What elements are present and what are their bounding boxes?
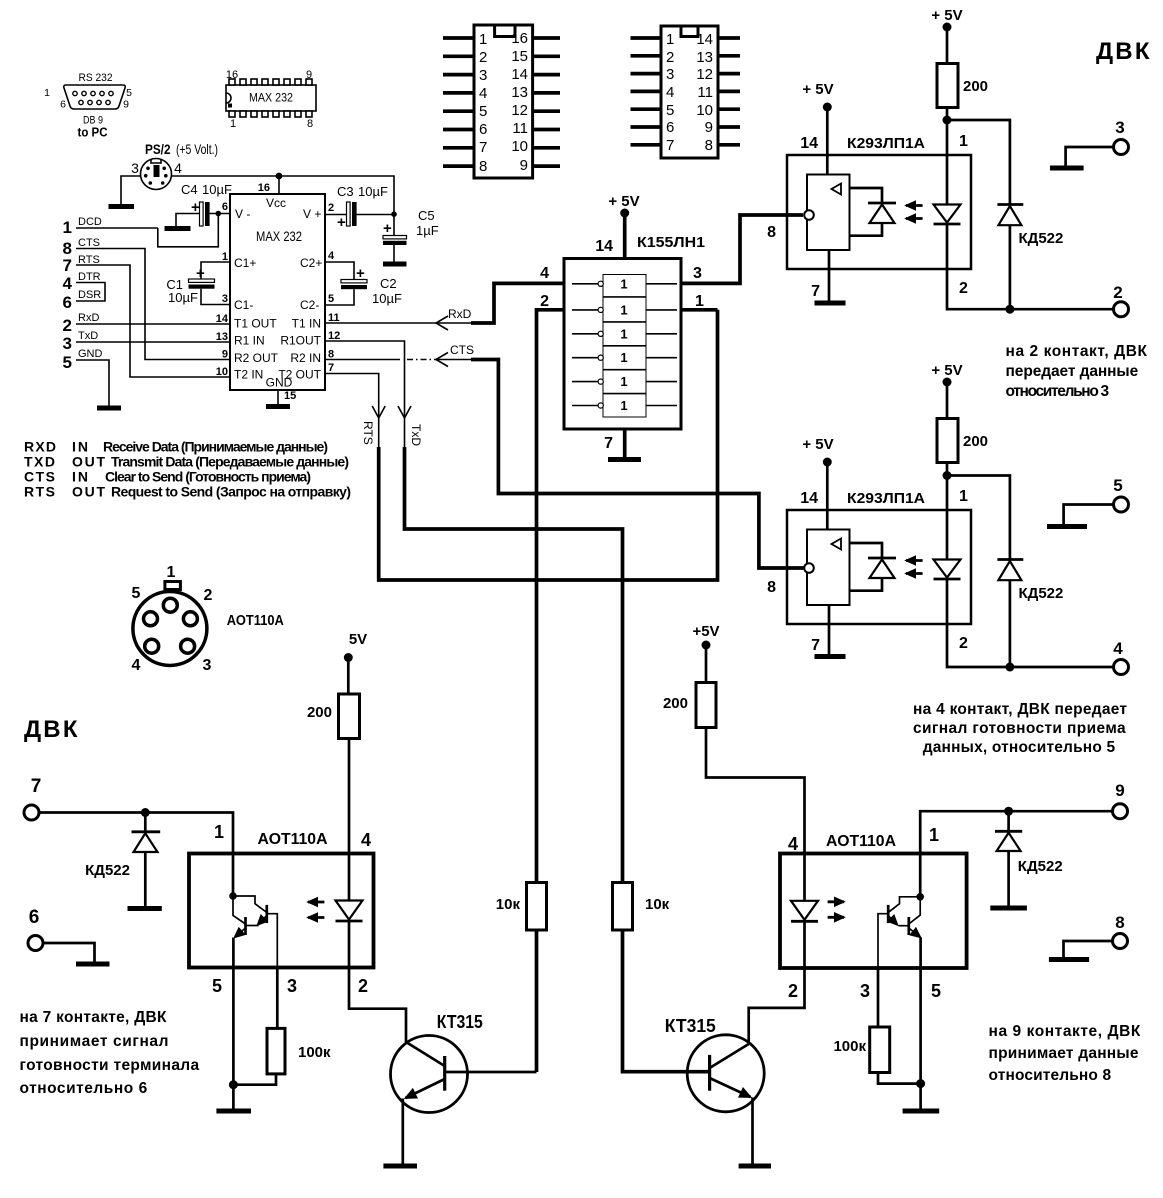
svg-text:4: 4 [1113,639,1123,658]
svg-text:10: 10 [696,102,713,119]
svg-text:4: 4 [666,84,674,101]
wire pin5 no.2 to ground [919,968,922,1109]
wire RxD to T1OUT [76,323,230,325]
wire pin2 to KT315 no.1 collector [349,968,406,1043]
svg-text:2: 2 [479,49,487,66]
svg-text:1: 1 [63,218,72,237]
ground (C5) [383,262,407,267]
svg-text:GND: GND [78,348,103,360]
node (V- / C4 / DCD junction) [216,211,222,217]
svg-text:5: 5 [666,102,674,119]
svg-text:OUT: OUT [72,454,105,470]
wire T2OUT (RTS out) with arrow [325,310,718,580]
wire junction to KD522 no.2 [947,476,1010,560]
svg-text:2: 2 [959,280,968,297]
wire +5V to R1 [946,27,949,64]
wire DCD [76,227,158,229]
wire R to pin4 AOT110A no.1 [348,739,351,854]
svg-text:10µF: 10µF [358,184,388,199]
svg-text:RTS: RTS [361,421,375,445]
svg-text:Clear to Send (Готовность прие: Clear to Send (Готовность приема) [105,469,311,485]
svg-text:на 4 контакт, ДВК передает: на 4 контакт, ДВК передает [913,701,1127,718]
svg-text:10: 10 [511,138,528,155]
svg-text:принимает данные: принимает данные [989,1045,1139,1062]
svg-text:8: 8 [479,158,487,175]
svg-text:7: 7 [63,256,72,275]
svg-text:MAX 232: MAX 232 [249,93,293,105]
svg-text:КД522: КД522 [1019,230,1064,247]
capacitor C4 10uF [176,182,232,227]
wire GND [76,360,109,406]
resistor 200 (opto2) [937,419,958,463]
svg-text:7: 7 [666,137,674,154]
svg-text:11: 11 [697,84,713,101]
svg-text:+ 5V: + 5V [802,81,833,98]
svg-text:C2: C2 [380,276,397,291]
svg-text:КД522: КД522 [1019,585,1064,602]
svg-text:7: 7 [811,637,820,654]
svg-text:V +: V + [303,207,321,221]
svg-text:8: 8 [767,579,776,596]
ground (K155LN1 pin7) [608,457,641,462]
svg-text:T1 OUT: T1 OUT [234,317,277,331]
wire DTR-DSR jumper [76,283,105,302]
capacitor C2 10uF [325,262,402,306]
LED (AOT110A no.1) [348,854,351,900]
svg-text:TXD: TXD [24,454,55,470]
svg-text:5: 5 [1113,476,1122,495]
wire R2IN (CTS in) with arrow [325,343,804,568]
text: na 4 kontakt [913,701,1127,756]
resistor 200 (left AOT110A) [339,694,360,739]
svg-text:принимает сигнал: принимает сигнал [20,1033,169,1050]
wire pin3 to 100k [276,968,279,1029]
svg-text:(+5 Volt.): (+5 Volt.) [176,141,218,157]
svg-text:7: 7 [328,362,334,374]
svg-text:2: 2 [540,293,549,310]
svg-text:1: 1 [620,374,627,389]
wire R1 to opto1 pin1 [946,108,949,156]
node (pin5/100k junction no.2) [916,1079,925,1088]
svg-text:12: 12 [511,102,528,119]
base of T1 to pin 3 [267,914,278,968]
svg-text:14: 14 [696,31,713,48]
svg-text:3: 3 [203,657,212,674]
svg-text:+ 5V: + 5V [802,436,833,453]
svg-text:5: 5 [126,87,132,99]
wire pin3 no.2 to 100k [877,968,880,1028]
ground (C4) [165,226,191,231]
wire T1IN (RxD in) with arrow [325,283,564,330]
svg-text:6: 6 [222,201,228,213]
photodiode (opto2) [850,543,883,558]
wire PS/2 pin3 to ground [121,176,141,205]
node (KD522-2 / contact4) [1005,663,1014,672]
resistor 100k (AOT110A no.2) [870,1027,890,1073]
diode KD522 no.4 [85,813,160,907]
resistor 200 (opto1) [937,64,958,108]
DB9 connector (RS 232, to PC) [44,72,132,140]
svg-text:9: 9 [123,99,129,111]
wire R1OUT (TxD out) with arrow [325,341,623,883]
svg-text:10к: 10к [645,896,670,913]
svg-text:4: 4 [174,160,182,176]
resistor 100k (AOT110A no.1) [267,1028,285,1074]
svg-text:10µF: 10µF [202,182,232,197]
svg-text:RTS: RTS [24,484,55,500]
svg-text:1: 1 [620,302,627,317]
text: na 2 kontakt [1006,343,1148,400]
PS/2 connector [131,141,218,190]
svg-text:1: 1 [44,87,50,99]
svg-text:OUT: OUT [72,484,105,500]
wire TxD to R1IN [76,341,230,343]
svg-text:14: 14 [511,66,528,83]
wire DCD to V- node [158,214,219,247]
svg-text:C3: C3 [337,184,354,199]
svg-text:3: 3 [693,265,702,282]
node (Vcc junction) [276,173,283,180]
svg-text:14: 14 [800,490,818,507]
svg-text:100к: 100к [298,1044,331,1061]
light arrows (opto1) [906,204,923,207]
svg-text:ДВК: ДВК [1096,38,1152,65]
diode KD522 no.1 [997,205,1063,310]
svg-text:200: 200 [307,704,332,721]
K293LP1A optocoupler no.1 [767,81,971,301]
AOT110A optocoupler no.1 (left) [189,822,374,968]
svg-text:+ 5V: + 5V [608,193,639,210]
svg-text:3: 3 [666,66,674,83]
svg-text:C4: C4 [181,182,198,197]
LED (AOT110A no.2) [803,854,806,900]
svg-text:КТ315: КТ315 [437,1012,483,1032]
svg-text:+5V: +5V [692,623,719,640]
pin 7 (opto2) [828,605,831,654]
14-pin DIP package [631,26,741,158]
svg-text:GND: GND [266,376,293,390]
svg-text:V -: V - [235,207,250,221]
svg-text:1: 1 [620,398,627,413]
AOT110A package pinout (round DIN view) [132,564,285,674]
transistor KT315 no.1 [391,1012,537,1164]
node (KD522 no.3) [1004,807,1013,816]
svg-text:3: 3 [479,67,487,84]
svg-text:RXD: RXD [24,439,56,455]
capacitor C3 10uF [325,184,394,231]
16-pin DIP package [443,25,560,178]
svg-text:R2 IN: R2 IN [290,351,321,365]
svg-text:на 9 контакте, ДВК: на 9 контакте, ДВК [989,1023,1141,1040]
svg-text:4: 4 [63,274,73,293]
diode KD522 no.2 [997,560,1063,668]
svg-text:3: 3 [287,976,297,996]
svg-text:5V: 5V [349,631,367,648]
svg-text:1: 1 [620,276,627,291]
svg-text:6: 6 [60,99,66,111]
svg-text:на 7 контакте, ДВК: на 7 контакте, ДВК [20,1009,168,1026]
pin 7 (opto1) [828,250,831,301]
node (KD522-1 / contact2) [1005,305,1014,314]
ground (DB9 GND) [97,406,121,411]
svg-text:7: 7 [31,776,42,797]
svg-text:+ 5V: + 5V [931,7,962,24]
svg-text:на 2 контакт, ДВК: на 2 контакт, ДВК [1006,343,1148,360]
svg-text:3: 3 [63,334,72,353]
svg-text:1: 1 [959,488,968,505]
wire GND pin15 [277,390,279,405]
wire contact7 to pin1 AOT110A no.1 [39,813,233,897]
wire RTS to T2IN [76,265,230,377]
svg-text:4: 4 [540,265,549,282]
wire 100k to pin5 node [233,1074,276,1085]
svg-text:7: 7 [479,139,487,156]
LED (opto1) [946,155,949,204]
svg-text:3: 3 [1115,118,1124,137]
svg-text:+: + [337,214,346,231]
svg-text:1: 1 [214,822,224,842]
svg-text:1: 1 [959,133,968,150]
svg-text:16: 16 [511,30,528,47]
svg-text:IN: IN [72,439,88,455]
svg-text:8: 8 [767,224,776,241]
ground (AOT110A no.1 emitter) [216,1109,251,1114]
svg-text:4: 4 [132,657,141,674]
ground (opto1 pin7) [815,301,846,306]
svg-text:передает данные: передает данные [1006,363,1139,380]
svg-text:C5: C5 [418,208,435,223]
svg-text:TxD: TxD [409,424,423,446]
svg-text:9: 9 [520,157,528,174]
wire junction to KD522 no.1 [947,120,1010,205]
ground (MAX232 pin15) [266,404,290,409]
svg-text:200: 200 [963,433,988,450]
svg-text:10к: 10к [496,896,521,913]
svg-text:1: 1 [695,293,704,310]
svg-text:8: 8 [307,118,313,130]
phototransistor darlington (AOT110A no.2) [916,893,924,901]
svg-text:11: 11 [512,120,528,137]
svg-text:Transmit Data (Передаваемые да: Transmit Data (Передаваемые данные) [111,454,349,470]
svg-text:сигнал готовности приема: сигнал готовности приема [913,720,1126,737]
svg-text:3: 3 [222,293,228,305]
node (opto2 pin1 junction) [943,471,952,480]
svg-text:7: 7 [604,435,613,452]
svg-text:1: 1 [230,118,236,130]
svg-text:R1OUT: R1OUT [280,334,321,348]
svg-text:5: 5 [479,103,487,120]
light arrows (AOT110A no.2, pointing right) [828,900,844,903]
wire 100k no.2 to pin5 node [878,1073,921,1084]
svg-text:CTS: CTS [78,237,100,249]
svg-text:2: 2 [63,316,72,335]
svg-text:АОТ110А: АОТ110А [826,833,896,850]
svg-text:6: 6 [666,119,674,136]
svg-text:5: 5 [132,585,141,602]
svg-text:6: 6 [29,907,40,928]
svg-text:1: 1 [620,350,627,365]
node (V+ / C5 junction) [391,211,397,217]
wire pin5 to ground [232,968,235,1109]
node (KD522 no.4) [141,808,150,817]
svg-text:14: 14 [595,238,613,255]
wire pin2 AOT110A no.2 to KT315 no.2 collector [749,968,805,1045]
ground (KT315 no.1) [383,1164,417,1169]
svg-text:1: 1 [929,825,939,845]
svg-text:6: 6 [63,293,72,312]
MAX 232 DIP package (top view) [226,69,316,130]
svg-text:IN: IN [72,469,88,485]
svg-text:C1-: C1- [234,298,253,312]
svg-text:5: 5 [328,293,334,305]
svg-text:АОТ110А: АОТ110А [258,831,328,848]
wire pin1 AOT110A no.2 to contact 9 [920,811,1112,897]
K293LP1A optocoupler no.2 [767,436,971,654]
svg-text:8: 8 [1115,913,1124,932]
svg-text:200: 200 [963,78,988,95]
wire R to pin4 AOT110A no.2 [706,728,805,854]
wire PS/2 pin4 to +5V rail [172,176,395,236]
svg-text:1: 1 [479,31,487,48]
svg-text:TxD: TxD [78,330,98,342]
svg-text:2: 2 [1113,283,1122,302]
svg-text:DCD: DCD [78,216,102,228]
svg-text:16: 16 [258,182,270,194]
MAX232 U1 [216,182,341,402]
svg-text:9: 9 [1115,781,1124,800]
diode KD522 no.3 [995,811,1063,905]
ground (PS/2) [109,204,135,209]
svg-text:относительно 3: относительно 3 [1006,383,1110,400]
wire pin14 K155LN1 [623,213,627,259]
capacitor C1 10uF [166,262,230,305]
svg-text:2: 2 [328,202,334,214]
svg-text:4: 4 [361,830,371,850]
svg-text:Vcc: Vcc [266,196,286,210]
svg-text:C1+: C1+ [234,256,256,270]
svg-text:R2 OUT: R2 OUT [234,351,279,365]
svg-text:готовности терминала: готовности терминала [20,1057,200,1074]
svg-text:относительно 8: относительно 8 [989,1067,1112,1084]
svg-text:9: 9 [705,119,713,136]
svg-text:КД522: КД522 [85,862,130,879]
transistor KT315 no.2 [665,1016,764,1164]
svg-text:10µF: 10µF [372,291,402,306]
svg-text:+ 5V: + 5V [931,362,962,379]
resistor 200 (right AOT110A) [696,683,716,728]
svg-text:5: 5 [931,981,941,1001]
svg-text:1: 1 [666,31,674,48]
text: na 9 kontakte [989,1023,1141,1084]
svg-text:C2+: C2+ [300,256,322,270]
legend text RXD/TXD/CTS/RTS [24,439,351,500]
ground (KD522 no.4) [128,906,162,911]
AOT110A optocoupler no.2 (right) [780,825,967,968]
resistor 10k (left) [527,883,547,931]
svg-text:CTS: CTS [450,343,474,357]
svg-text:CTS: CTS [24,469,55,485]
svg-text:К155ЛН1: К155ЛН1 [637,234,705,251]
+5V (K155LN1) [608,193,639,218]
svg-text:R1 IN: R1 IN [234,334,265,348]
svg-text:5: 5 [63,353,72,372]
svg-text:АОТ110А: АОТ110А [227,613,284,629]
svg-text:100к: 100к [833,1038,866,1055]
svg-text:Receive Data (Принимаемые данн: Receive Data (Принимаемые данные) [103,439,328,455]
wire 10k left to KT315 no.1 base [535,930,539,1072]
ground (AOT110A no.2 emitter) [903,1109,940,1114]
wire 10k right to KT315 no.2 base [623,930,710,1072]
svg-text:C2-: C2- [300,298,319,312]
node (opto1 pin1 junction) [943,116,952,125]
resistor 10k (right) [613,883,633,931]
svg-text:2: 2 [959,635,968,652]
svg-text:+: + [383,220,392,237]
LED (opto2) [946,510,949,559]
svg-text:DTR: DTR [78,271,101,283]
svg-text:RS 232: RS 232 [79,72,113,84]
svg-text:К293ЛП1А: К293ЛП1А [847,135,925,152]
svg-text:200: 200 [663,695,688,712]
svg-text:13: 13 [511,84,528,101]
svg-text:10µF: 10µF [168,290,198,305]
svg-text:1: 1 [620,326,627,341]
svg-text:4: 4 [788,834,798,854]
svg-text:RxD: RxD [448,307,472,321]
svg-text:2: 2 [358,976,368,996]
svg-text:PS/2: PS/2 [145,141,171,157]
svg-text:RxD: RxD [78,312,99,324]
svg-text:относительно 6: относительно 6 [20,1080,148,1097]
svg-text:ДВК: ДВК [24,716,80,743]
svg-text:данных, относительно 5: данных, относительно 5 [923,739,1116,756]
svg-text:2: 2 [666,49,674,66]
node (pin5/100k junction) [229,1080,238,1089]
svg-text:14: 14 [800,135,818,152]
text: na 7 kontakte [20,1009,200,1097]
svg-text:5: 5 [212,976,222,996]
svg-text:КТ315: КТ315 [665,1016,716,1036]
svg-text:16: 16 [226,69,238,81]
svg-text:3: 3 [860,981,870,1001]
ground (KT315 no.2) [739,1164,771,1169]
svg-text:T2 IN: T2 IN [234,368,263,382]
svg-text:1: 1 [167,564,176,581]
phototransistor darlington (AOT110A no.1) [229,892,237,900]
svg-text:КД522: КД522 [1018,858,1063,875]
svg-text:Request to Send (Запрос на отп: Request to Send (Запрос на отправку) [111,484,351,500]
svg-text:15: 15 [284,390,296,402]
svg-text:T1 IN: T1 IN [292,317,321,331]
wire Vcc pin16 [278,176,280,194]
base of T1 to pin 3 (no.2) [878,914,888,968]
svg-text:6: 6 [479,121,487,138]
svg-text:12: 12 [696,66,713,83]
light arrows (AOT110A no.1, pointing left) [308,901,324,904]
svg-text:7: 7 [811,283,820,300]
capacitor C5 1uF [383,208,439,262]
svg-text:2: 2 [204,587,213,604]
svg-text:DSR: DSR [78,289,101,301]
photodiode (opto1) [850,188,883,203]
svg-text:8: 8 [705,137,713,154]
svg-text:К293ЛП1А: К293ЛП1А [847,490,925,507]
ground (KD522 no.3) [990,906,1027,911]
ground (opto2 pin7) [815,654,846,659]
svg-text:MAX 232: MAX 232 [256,228,302,244]
svg-text:to PC: to PC [78,125,109,140]
svg-text:2: 2 [788,981,798,1001]
